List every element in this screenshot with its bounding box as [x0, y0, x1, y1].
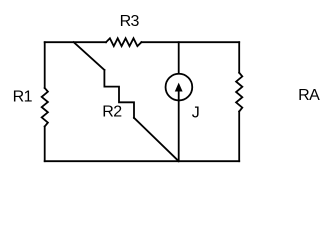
- resistor R2 diagonal lead-out wire: [134, 118, 179, 161]
- svg-text:RA: RA: [298, 87, 320, 104]
- resistor R3: [106, 38, 141, 46]
- wire source branch top: [178, 42, 180, 73]
- current source J arrowhead: [175, 83, 183, 92]
- svg-text:R2: R2: [102, 104, 122, 121]
- resistor R2 staircase: [104, 70, 134, 118]
- wire bottom: [45, 160, 240, 162]
- wire left bottom: [44, 127, 46, 162]
- svg-text:R3: R3: [120, 13, 140, 30]
- resistor R1: [42, 88, 48, 127]
- svg-text:R1: R1: [13, 89, 33, 106]
- wire top-right segment: [141, 41, 239, 43]
- wire top-left segment: [45, 41, 106, 43]
- svg-text:J: J: [192, 104, 200, 121]
- wire left top: [44, 42, 46, 88]
- wire right top: [238, 42, 240, 72]
- resistor R2 diagonal lead-in wire: [74, 42, 105, 70]
- resistor RA: [236, 73, 242, 112]
- wire source branch bottom: [178, 91, 180, 161]
- current source J circle: [166, 74, 193, 101]
- wire right bottom: [238, 112, 240, 162]
